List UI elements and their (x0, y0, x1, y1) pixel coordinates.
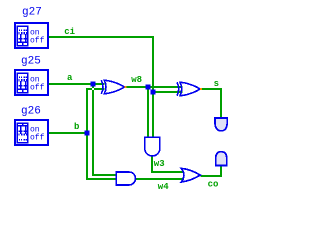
svg-text:g27: g27 (22, 6, 42, 18)
wire b stub to xor1 (86, 88, 105, 90)
orange pin xor2 output (200, 88, 202, 90)
svg-text:w3: w3 (154, 159, 165, 169)
and gate AND2 vertical (145, 137, 160, 156)
switch g27 box (15, 23, 48, 48)
wire s horizontal (201, 88, 222, 90)
svg-text:co: co (208, 180, 219, 190)
wire a horizontal (49, 83, 105, 85)
LED2 output co (216, 152, 227, 166)
svg-text:w4: w4 (158, 182, 169, 192)
crossing gap white pixel (92, 88, 94, 90)
svg-text:a: a (67, 73, 73, 83)
svg-text:off: off (30, 134, 45, 143)
svg-text:g25: g25 (21, 55, 41, 67)
switch g27 icon (off) (18, 29, 28, 45)
LED1 output s (215, 118, 227, 131)
orange pin xor1 output (124, 86, 126, 88)
switch g25 icon (off) (18, 76, 28, 92)
wire ci branch horizontal to xor2 (152, 91, 183, 93)
svg-text:off: off (30, 84, 45, 93)
node junction dot on w8 (146, 85, 151, 90)
or gate OR1 (181, 168, 200, 182)
svg-text:ci: ci (64, 27, 75, 37)
node junction dot on ci branch (151, 90, 156, 95)
wire w4 horizontal (136, 178, 184, 180)
wire a branch vertical (92, 83, 94, 176)
wire ci horizontal (49, 36, 154, 38)
svg-text:w8: w8 (131, 75, 142, 85)
switch g25 box (15, 70, 48, 95)
wire co vertical (220, 165, 222, 177)
node junction dot on a (91, 82, 96, 87)
switch g26 icon (on) (18, 123, 28, 141)
wire w3 vertical (151, 156, 153, 173)
svg-text:g26: g26 (21, 105, 41, 117)
wire b horizontal from switch (49, 132, 88, 134)
svg-text:off: off (30, 37, 45, 46)
xor gate XOR2 (177, 82, 200, 96)
wire b vertical (86, 88, 88, 179)
wire co horizontal (201, 175, 222, 177)
wire w3 horizontal to or (151, 171, 184, 173)
xor gate XOR1 (101, 80, 124, 94)
and gate AND1 (116, 172, 135, 185)
node junction dot on b (85, 131, 90, 136)
svg-text:b: b (74, 122, 79, 132)
wire b branch horizontal to and1 (86, 178, 117, 180)
wire s vertical (220, 88, 222, 118)
wire a branch horizontal to and1 (92, 174, 117, 176)
svg-text:s: s (214, 79, 219, 89)
switch g26 box (15, 120, 48, 145)
wire w8 horizontal (125, 86, 182, 88)
wire w8 branch vertical (147, 86, 149, 138)
wire ci vertical (152, 36, 154, 138)
